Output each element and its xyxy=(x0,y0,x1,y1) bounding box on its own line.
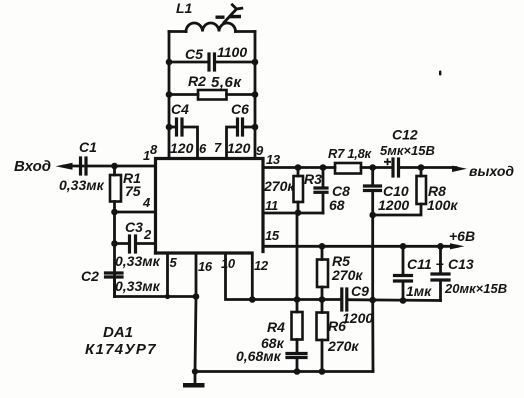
capacitor C5 xyxy=(169,54,255,70)
wire bottom-left xyxy=(115,295,197,298)
node right rail R2 xyxy=(252,91,259,98)
svg-text:C4: C4 xyxy=(171,101,189,117)
wire pin5 xyxy=(166,253,169,297)
capacitor C4 xyxy=(169,119,198,158)
resistor R7 xyxy=(335,163,393,174)
svg-text:+6В: +6В xyxy=(449,228,475,244)
wire pin10 xyxy=(226,253,253,300)
node left rail C5 xyxy=(166,59,173,66)
svg-text:Вход: Вход xyxy=(14,158,51,175)
capacitor 0,68мк (under R4) xyxy=(287,354,306,375)
node junction C1/R1 xyxy=(111,163,118,170)
capacitor C3 xyxy=(115,236,156,252)
capacitor C1 xyxy=(81,158,115,174)
wire tank right rail xyxy=(254,32,257,159)
capacitor C8 xyxy=(315,164,327,213)
svg-text:16: 16 xyxy=(198,259,213,274)
node junction C11 bottom xyxy=(400,297,407,304)
svg-text:120: 120 xyxy=(170,140,194,156)
svg-text:C11 +: C11 + xyxy=(407,256,444,272)
svg-text:DA1: DA1 xyxy=(103,324,133,341)
svg-text:0,33мк: 0,33мк xyxy=(115,278,161,294)
node junction ground column mid xyxy=(369,297,376,304)
ink speck xyxy=(439,71,441,76)
svg-text:120: 120 xyxy=(227,140,251,156)
svg-text:R3: R3 xyxy=(304,171,322,187)
+6V arrow xyxy=(450,243,465,249)
node junction R1 bottom xyxy=(111,209,118,216)
svg-text:C5: C5 xyxy=(185,46,203,62)
svg-text:C3: C3 xyxy=(125,219,143,235)
svg-text:C1: C1 xyxy=(79,139,97,155)
capacitor C12 xyxy=(384,158,456,176)
svg-text:1мк: 1мк xyxy=(406,283,432,299)
node left rail R2 xyxy=(166,91,173,98)
node right rail C5 xyxy=(252,59,259,66)
svg-text:R4: R4 xyxy=(267,319,285,335)
svg-text:8: 8 xyxy=(150,142,158,157)
node junction R5 top xyxy=(319,243,326,250)
svg-text:270к: 270к xyxy=(263,178,295,194)
resistor R3 xyxy=(294,164,304,216)
output arrow xyxy=(452,166,467,172)
node left rail C4 xyxy=(166,124,173,131)
node junction pin12 xyxy=(249,296,256,303)
wire pin12 xyxy=(251,253,254,300)
wire tank left rail xyxy=(168,32,171,159)
node junction pin5 xyxy=(165,294,170,299)
svg-text:1: 1 xyxy=(143,148,150,163)
svg-text:1200: 1200 xyxy=(342,310,373,326)
resistor R2 xyxy=(169,90,255,100)
svg-text:13: 13 xyxy=(266,152,281,167)
svg-text:10: 10 xyxy=(221,256,236,271)
wire bottom rail xyxy=(195,370,373,373)
svg-text:C2: C2 xyxy=(81,268,99,284)
svg-text:68: 68 xyxy=(329,197,345,213)
resistor R8 xyxy=(373,168,427,216)
svg-text:20мк×15В: 20мк×15В xyxy=(444,281,507,296)
svg-text:270к: 270к xyxy=(327,338,359,354)
wire ground column xyxy=(371,215,374,372)
node junction R4 top xyxy=(294,296,301,303)
wire mid rail left xyxy=(252,298,341,301)
capacitor C6 xyxy=(227,119,256,158)
svg-text:100к: 100к xyxy=(427,197,458,213)
svg-text:4: 4 xyxy=(142,195,151,210)
wire left column xyxy=(113,212,116,297)
svg-text:0,33мк: 0,33мк xyxy=(115,253,161,269)
svg-text:0,33мк: 0,33мк xyxy=(59,177,105,193)
svg-text:5мк×15В: 5мк×15В xyxy=(380,143,435,158)
svg-text:12: 12 xyxy=(254,258,269,273)
input arrow xyxy=(56,163,84,170)
wire pin16 to ground xyxy=(195,253,196,372)
resistor R1 xyxy=(110,166,121,212)
svg-text:2: 2 xyxy=(143,227,152,242)
node junction pin16 xyxy=(193,293,200,300)
svg-text:1100: 1100 xyxy=(217,44,247,60)
capacitor C10 xyxy=(365,168,381,219)
node right rail C6 xyxy=(252,124,259,131)
resistor R6 xyxy=(317,300,329,375)
svg-text:6: 6 xyxy=(199,141,207,156)
ground xyxy=(183,372,205,386)
svg-text:R2: R2 xyxy=(188,73,206,89)
resistor R4 xyxy=(292,213,303,353)
svg-text:C9: C9 xyxy=(351,283,369,299)
svg-text:270к: 270к xyxy=(331,267,363,283)
wire pin15 +6V rail xyxy=(263,245,457,248)
svg-text:9: 9 xyxy=(256,143,264,158)
wire pin13 xyxy=(263,166,335,169)
svg-text:75: 75 xyxy=(125,183,141,199)
capacitor C2 xyxy=(106,273,123,297)
svg-text:выход: выход xyxy=(469,163,514,179)
svg-text:К174УР7: К174УР7 xyxy=(85,341,157,358)
svg-text:C12: C12 xyxy=(392,127,418,143)
svg-text:5,6к: 5,6к xyxy=(211,74,242,91)
node junction C12/R8 xyxy=(418,164,425,171)
capacitor C9 xyxy=(342,289,441,310)
node junction C3 xyxy=(111,240,118,247)
inductor L1 xyxy=(169,23,255,32)
wire pin1 xyxy=(114,165,155,168)
resistor R5 xyxy=(317,246,328,303)
svg-text:C6: C6 xyxy=(231,101,249,117)
svg-text:7: 7 xyxy=(214,140,222,155)
trimmer arrow L1 xyxy=(216,5,242,23)
svg-text:C13: C13 xyxy=(448,256,474,272)
svg-text:15: 15 xyxy=(265,228,280,243)
svg-text:5: 5 xyxy=(170,255,178,270)
svg-text:L1: L1 xyxy=(176,0,193,16)
wire pin11 xyxy=(263,212,323,215)
capacitor C11 xyxy=(395,243,412,301)
node junction C10 top xyxy=(369,164,376,171)
capacitor C13 xyxy=(432,243,449,301)
svg-text:R7 1,8к: R7 1,8к xyxy=(328,146,373,161)
IC DA1 body xyxy=(156,159,264,254)
wire pin4 xyxy=(115,211,156,214)
svg-text:1200: 1200 xyxy=(378,197,409,213)
svg-text:11: 11 xyxy=(265,198,278,213)
svg-text:0,68мк: 0,68мк xyxy=(236,348,282,364)
node junction ground rail xyxy=(192,368,198,374)
